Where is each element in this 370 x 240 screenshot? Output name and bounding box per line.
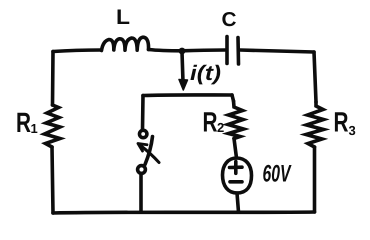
svg-text:L: L xyxy=(116,6,130,29)
wire right side down to R3 xyxy=(314,52,316,102)
svg-text:i(t): i(t) xyxy=(190,62,221,85)
svg-text:R: R xyxy=(203,107,218,138)
source minus sign xyxy=(230,180,242,184)
switch arrowhead xyxy=(138,144,147,152)
source plus sign xyxy=(230,162,243,174)
switch top terminal xyxy=(140,130,147,137)
resistor R1 xyxy=(45,105,61,147)
inductor L xyxy=(102,37,149,50)
svg-text:C: C xyxy=(222,9,237,31)
switch bottom terminal xyxy=(138,166,146,174)
wire arrow i(t) from node xyxy=(182,52,183,82)
wire R3 to bottom-right corner xyxy=(313,147,317,212)
node junction dot xyxy=(179,48,186,55)
wire left side up to R1 bottom xyxy=(52,147,53,213)
wire top-left horizontal xyxy=(53,50,101,52)
wire node to capacitor xyxy=(182,48,225,52)
bottom wire xyxy=(53,212,315,213)
capacitor C right plate xyxy=(236,38,240,65)
svg-text:R: R xyxy=(334,107,349,138)
wire inductor to node xyxy=(149,50,183,51)
wire middle to switch top xyxy=(141,96,145,131)
svg-text:60V: 60V xyxy=(263,161,292,188)
svg-text:R: R xyxy=(16,107,31,138)
wire R2 to source xyxy=(234,139,237,159)
svg-text:3: 3 xyxy=(349,123,356,138)
capacitor C left plate xyxy=(225,37,229,64)
arrowhead i(t) xyxy=(179,80,188,91)
switch blade xyxy=(145,137,153,165)
wire switch to bottom xyxy=(139,174,143,213)
wire R1 to top-left corner xyxy=(51,52,55,106)
wire capacitor to top-right corner xyxy=(240,50,314,52)
resistor R3 xyxy=(306,102,324,147)
switch arrow stroke xyxy=(141,146,160,163)
voltage source 60V circle xyxy=(223,158,252,193)
wire source to bottom xyxy=(237,193,239,212)
svg-text:2: 2 xyxy=(217,120,224,135)
middle horizontal wire xyxy=(143,93,232,97)
resistor R2 xyxy=(228,101,244,139)
svg-text:1: 1 xyxy=(31,121,38,136)
wire middle to R2 top xyxy=(232,95,234,101)
